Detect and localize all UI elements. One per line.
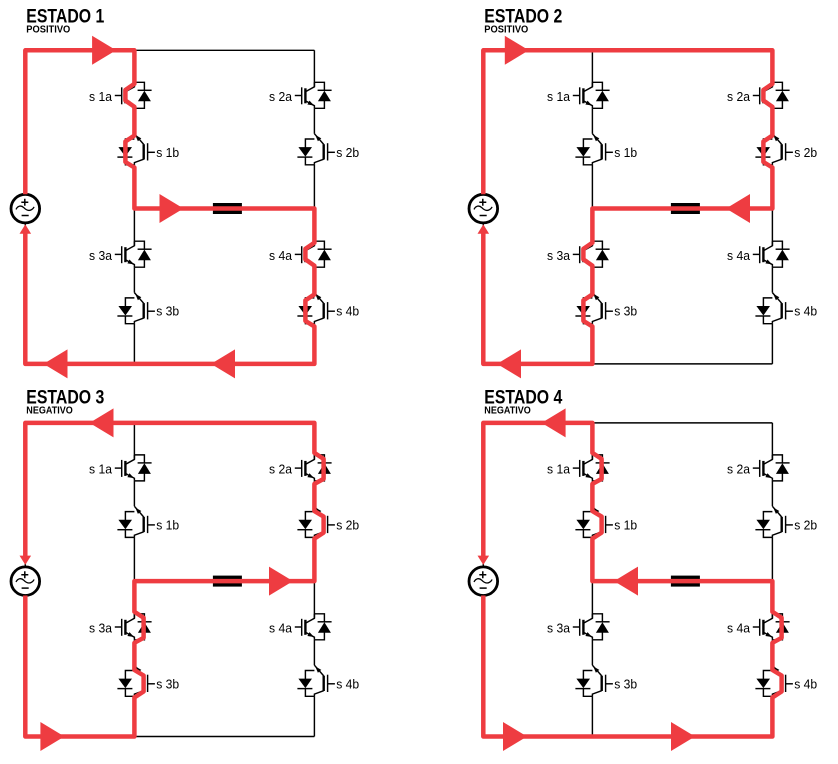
- IGBT bidirectional switch cell s4a (estado 4): [727, 614, 790, 640]
- wire: middle bus (load net): [592, 580, 772, 582]
- IGBT bidirectional switch cell s4b (estado 1): [297, 293, 359, 324]
- svg-text:s 3b: s 3b: [614, 304, 637, 319]
- AC source Vs (estado 3): [11, 567, 40, 596]
- current direction arrow 1 (estado 4): [542, 408, 566, 437]
- current direction arrow 2 (estado 4): [614, 567, 638, 596]
- wire: outer left (source branch): [482, 50, 484, 364]
- load (output): [671, 576, 700, 587]
- wire: left leg segments: [133, 423, 135, 737]
- svg-text:s 2a: s 2a: [727, 462, 751, 477]
- wire: middle bus (load net): [592, 208, 772, 210]
- IGBT bidirectional switch cell s1b (estado 4): [575, 506, 637, 537]
- svg-text:s 2b: s 2b: [336, 145, 359, 160]
- IGBT bidirectional switch cell s3a (estado 3): [89, 614, 152, 640]
- current path (red loop, estado 1): [25, 50, 314, 364]
- svg-text:s 2a: s 2a: [269, 89, 293, 104]
- svg-text:POSITIVO: POSITIVO: [484, 25, 528, 36]
- IGBT bidirectional switch cell s3b (estado 4): [575, 665, 637, 696]
- current direction arrow 4 (estado 3): [20, 556, 32, 565]
- wire: right leg segments: [771, 50, 773, 364]
- svg-text:s 3b: s 3b: [156, 304, 179, 319]
- current direction arrow 1 (estado 1): [92, 36, 116, 65]
- svg-text:s 1b: s 1b: [614, 145, 637, 160]
- IGBT bidirectional switch cell s2a (estado 4): [727, 455, 790, 481]
- svg-text:s 2a: s 2a: [269, 462, 293, 477]
- wire: right leg segments: [313, 423, 315, 737]
- IGBT bidirectional switch cell s1a (estado 4): [547, 455, 610, 481]
- current path (red loop, estado 4): [483, 423, 781, 737]
- wire: top bus: [483, 422, 772, 424]
- svg-text:s 4a: s 4a: [269, 248, 293, 263]
- current direction arrow 2 (estado 1): [160, 194, 184, 223]
- IGBT bidirectional switch cell s3b (estado 2): [575, 293, 637, 324]
- svg-text:s 3a: s 3a: [547, 248, 571, 263]
- current direction arrow 3 (estado 3): [40, 722, 64, 751]
- svg-text:s 1b: s 1b: [156, 517, 179, 532]
- current path (red loop, estado 2): [483, 50, 772, 364]
- IGBT bidirectional switch cell s2a (estado 3): [269, 455, 332, 481]
- wire: left leg segments: [591, 50, 593, 364]
- IGBT bidirectional switch cell s2b (estado 1): [297, 134, 359, 165]
- wire: bottom bus: [483, 736, 772, 738]
- IGBT bidirectional switch cell s2a (estado 1): [269, 82, 332, 108]
- IGBT bidirectional switch cell s4b (estado 3): [297, 665, 359, 696]
- wire: top bus: [25, 49, 314, 51]
- svg-text:s 3a: s 3a: [89, 248, 113, 263]
- current direction arrow 3 (estado 1): [44, 349, 68, 378]
- svg-text:s 3b: s 3b: [614, 676, 637, 691]
- svg-text:NEGATIVO: NEGATIVO: [26, 406, 73, 417]
- svg-text:s 2a: s 2a: [727, 89, 751, 104]
- wire: outer left (source branch): [482, 423, 484, 737]
- wire: top bus: [483, 49, 772, 51]
- wire: right leg segments: [313, 50, 315, 364]
- IGBT bidirectional switch cell s2b (estado 4): [755, 506, 817, 537]
- IGBT bidirectional switch cell s1b (estado 1): [117, 134, 179, 165]
- wire: middle bus (load net): [134, 208, 314, 210]
- svg-text:s 1a: s 1a: [89, 89, 113, 104]
- IGBT bidirectional switch cell s2b (estado 2): [755, 134, 817, 165]
- wire: middle bus (load net): [134, 580, 314, 582]
- current direction arrow 4 (estado 2): [478, 224, 490, 233]
- AC source Vs (estado 4): [469, 567, 498, 596]
- svg-text:s 4b: s 4b: [336, 304, 359, 319]
- wire: bottom bus: [483, 363, 772, 365]
- svg-text:s 1b: s 1b: [156, 145, 179, 160]
- current direction arrow 3 (estado 2): [497, 349, 521, 378]
- svg-text:NEGATIVO: NEGATIVO: [484, 406, 531, 417]
- IGBT bidirectional switch cell s4a (estado 2): [727, 241, 790, 267]
- current path (red loop, estado 3): [25, 423, 323, 737]
- wire: bottom bus: [25, 736, 314, 738]
- svg-text:s 1a: s 1a: [547, 89, 571, 104]
- svg-text:s 1b: s 1b: [614, 517, 637, 532]
- current direction arrow 4 (estado 1): [211, 349, 235, 378]
- svg-text:s 3a: s 3a: [547, 620, 571, 635]
- svg-text:POSITIVO: POSITIVO: [26, 25, 70, 36]
- IGBT bidirectional switch cell s4b (estado 4): [755, 665, 817, 696]
- svg-text:s 4b: s 4b: [336, 676, 359, 691]
- svg-text:s 1a: s 1a: [89, 462, 113, 477]
- wire: outer left (source branch): [24, 423, 26, 737]
- svg-text:s 3a: s 3a: [89, 620, 113, 635]
- wire: right leg segments: [771, 423, 773, 737]
- IGBT bidirectional switch cell s1a (estado 1): [89, 82, 152, 108]
- IGBT bidirectional switch cell s3b (estado 3): [117, 665, 179, 696]
- svg-text:s 4b: s 4b: [794, 676, 817, 691]
- AC source Vs (estado 2): [469, 194, 498, 223]
- svg-text:s 4a: s 4a: [269, 620, 293, 635]
- AC source Vs (estado 1): [11, 194, 40, 223]
- IGBT bidirectional switch cell s1a (estado 3): [89, 455, 152, 481]
- svg-text:s 2b: s 2b: [336, 517, 359, 532]
- svg-text:s 2b: s 2b: [794, 517, 817, 532]
- current direction arrow 5 (estado 1): [20, 224, 32, 233]
- svg-text:s 4a: s 4a: [727, 248, 751, 263]
- current direction arrow 1 (estado 2): [505, 36, 529, 65]
- IGBT bidirectional switch cell s4a (estado 3): [269, 614, 332, 640]
- current direction arrow 4 (estado 4): [671, 722, 695, 751]
- IGBT bidirectional switch cell s3b (estado 1): [117, 293, 179, 324]
- current direction arrow 5 (estado 4): [478, 556, 490, 565]
- current direction arrow 2 (estado 2): [726, 194, 750, 223]
- IGBT bidirectional switch cell s1b (estado 3): [117, 506, 179, 537]
- load (output): [671, 203, 700, 214]
- current direction arrow 3 (estado 4): [503, 722, 527, 751]
- IGBT bidirectional switch cell s4a (estado 1): [269, 241, 332, 267]
- load (output): [213, 203, 242, 214]
- current direction arrow 1 (estado 3): [90, 408, 114, 437]
- current direction arrow 2 (estado 3): [269, 567, 293, 596]
- svg-text:s 4b: s 4b: [794, 304, 817, 319]
- svg-text:s 1a: s 1a: [547, 462, 571, 477]
- svg-text:s 4a: s 4a: [727, 620, 751, 635]
- svg-text:s 2b: s 2b: [794, 145, 817, 160]
- IGBT bidirectional switch cell s1a (estado 2): [547, 82, 610, 108]
- wire: outer left (source branch): [24, 50, 26, 364]
- wire: left leg segments: [591, 423, 593, 737]
- IGBT bidirectional switch cell s2b (estado 3): [297, 506, 359, 537]
- wire: bottom bus: [25, 363, 314, 365]
- IGBT bidirectional switch cell s2a (estado 2): [727, 82, 790, 108]
- IGBT bidirectional switch cell s1b (estado 2): [575, 134, 637, 165]
- svg-text:s 3b: s 3b: [156, 676, 179, 691]
- IGBT bidirectional switch cell s4b (estado 2): [755, 293, 817, 324]
- wire: top bus: [25, 422, 314, 424]
- IGBT bidirectional switch cell s3a (estado 2): [547, 241, 610, 267]
- IGBT bidirectional switch cell s3a (estado 1): [89, 241, 152, 267]
- wire: left leg segments: [133, 50, 135, 364]
- IGBT bidirectional switch cell s3a (estado 4): [547, 614, 610, 640]
- load (output): [213, 576, 242, 587]
